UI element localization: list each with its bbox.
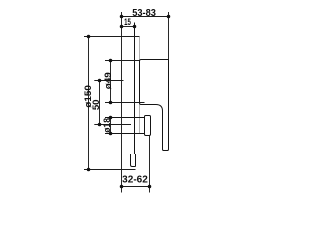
dimension line 32-62 bbox=[122, 186, 150, 188]
dim dot dia150 bottom bbox=[87, 168, 91, 172]
extension line knob cap bbox=[149, 136, 151, 193]
svg-text:50: 50 bbox=[91, 99, 101, 110]
extension line knob axis bbox=[94, 124, 131, 126]
dimension line dia49 bbox=[110, 61, 112, 103]
dim dot dia150 top bbox=[87, 35, 91, 39]
dim dot dia18 top bbox=[109, 116, 113, 120]
svg-text:ø49: ø49 bbox=[103, 72, 113, 89]
bottom outlet stub bbox=[131, 154, 136, 167]
knob stem top edge (with dia18 extension) bbox=[105, 117, 145, 119]
extension line plate top bbox=[84, 36, 140, 38]
extension line handle front bbox=[168, 12, 170, 60]
dim dot 50 bottom bbox=[98, 123, 102, 127]
dim dot 15 right bbox=[133, 25, 137, 29]
dim dot dia49 top bbox=[109, 59, 113, 63]
dim dot 32-62 right bbox=[148, 185, 152, 189]
wall plate front edge upper (thin) bbox=[139, 37, 141, 60]
dimension line 50 bbox=[99, 81, 101, 125]
wall plate front edge lower (thin) bbox=[139, 105, 141, 134]
handle hub and lever outline bbox=[140, 60, 169, 151]
dimension line 15 bbox=[122, 26, 135, 28]
dim dot 15 left bbox=[120, 25, 124, 29]
svg-text:53-83: 53-83 bbox=[132, 8, 156, 19]
extension line hub bottom bbox=[105, 102, 145, 104]
dim dot dia18 bottom bbox=[109, 132, 113, 136]
dimension line 53-83 bbox=[122, 16, 169, 18]
dimension line dia18 bbox=[110, 118, 112, 134]
svg-text:32-62: 32-62 bbox=[122, 175, 148, 186]
svg-text:15: 15 bbox=[124, 17, 131, 28]
extension line left (mounting face reference) bbox=[121, 12, 123, 193]
knob end cap bbox=[145, 116, 151, 136]
dim dot 53-83 right bbox=[167, 15, 171, 19]
wall plate top edge bbox=[135, 36, 140, 38]
dim dot dia49 bottom bbox=[109, 101, 113, 105]
dim dot 50 top bbox=[98, 79, 102, 83]
wall plate back edge bbox=[134, 23, 136, 155]
dim dot 53-83 left bbox=[120, 15, 124, 19]
extension line hub axis bbox=[94, 80, 123, 82]
svg-text:ø18: ø18 bbox=[102, 118, 112, 133]
extension line plate bottom bbox=[84, 169, 136, 171]
knob stem bottom edge (with dia18 extension) bbox=[105, 133, 145, 135]
extension line hub top bbox=[105, 60, 140, 62]
dimension line dia150 bbox=[88, 37, 90, 170]
dim dot 32-62 left bbox=[120, 185, 124, 189]
